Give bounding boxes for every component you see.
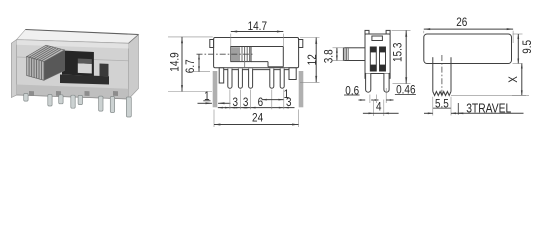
svg-text:6.7: 6.7 (183, 59, 197, 73)
svg-text:14.9: 14.9 (168, 52, 182, 72)
svg-text:14.7: 14.7 (248, 19, 268, 33)
svg-text:1: 1 (284, 87, 290, 101)
svg-text:26: 26 (456, 15, 467, 29)
svg-text:3: 3 (243, 95, 249, 109)
svg-text:3.8: 3.8 (322, 49, 336, 63)
svg-text:4: 4 (376, 100, 382, 114)
svg-text:3TRAVEL: 3TRAVEL (466, 100, 511, 115)
svg-text:3: 3 (233, 95, 239, 109)
svg-text:24: 24 (252, 111, 263, 125)
svg-text:12: 12 (305, 54, 319, 65)
svg-text:15.3: 15.3 (391, 42, 405, 62)
svg-text:9.5: 9.5 (520, 40, 534, 54)
svg-text:X: X (506, 76, 520, 83)
svg-text:6: 6 (258, 95, 264, 109)
